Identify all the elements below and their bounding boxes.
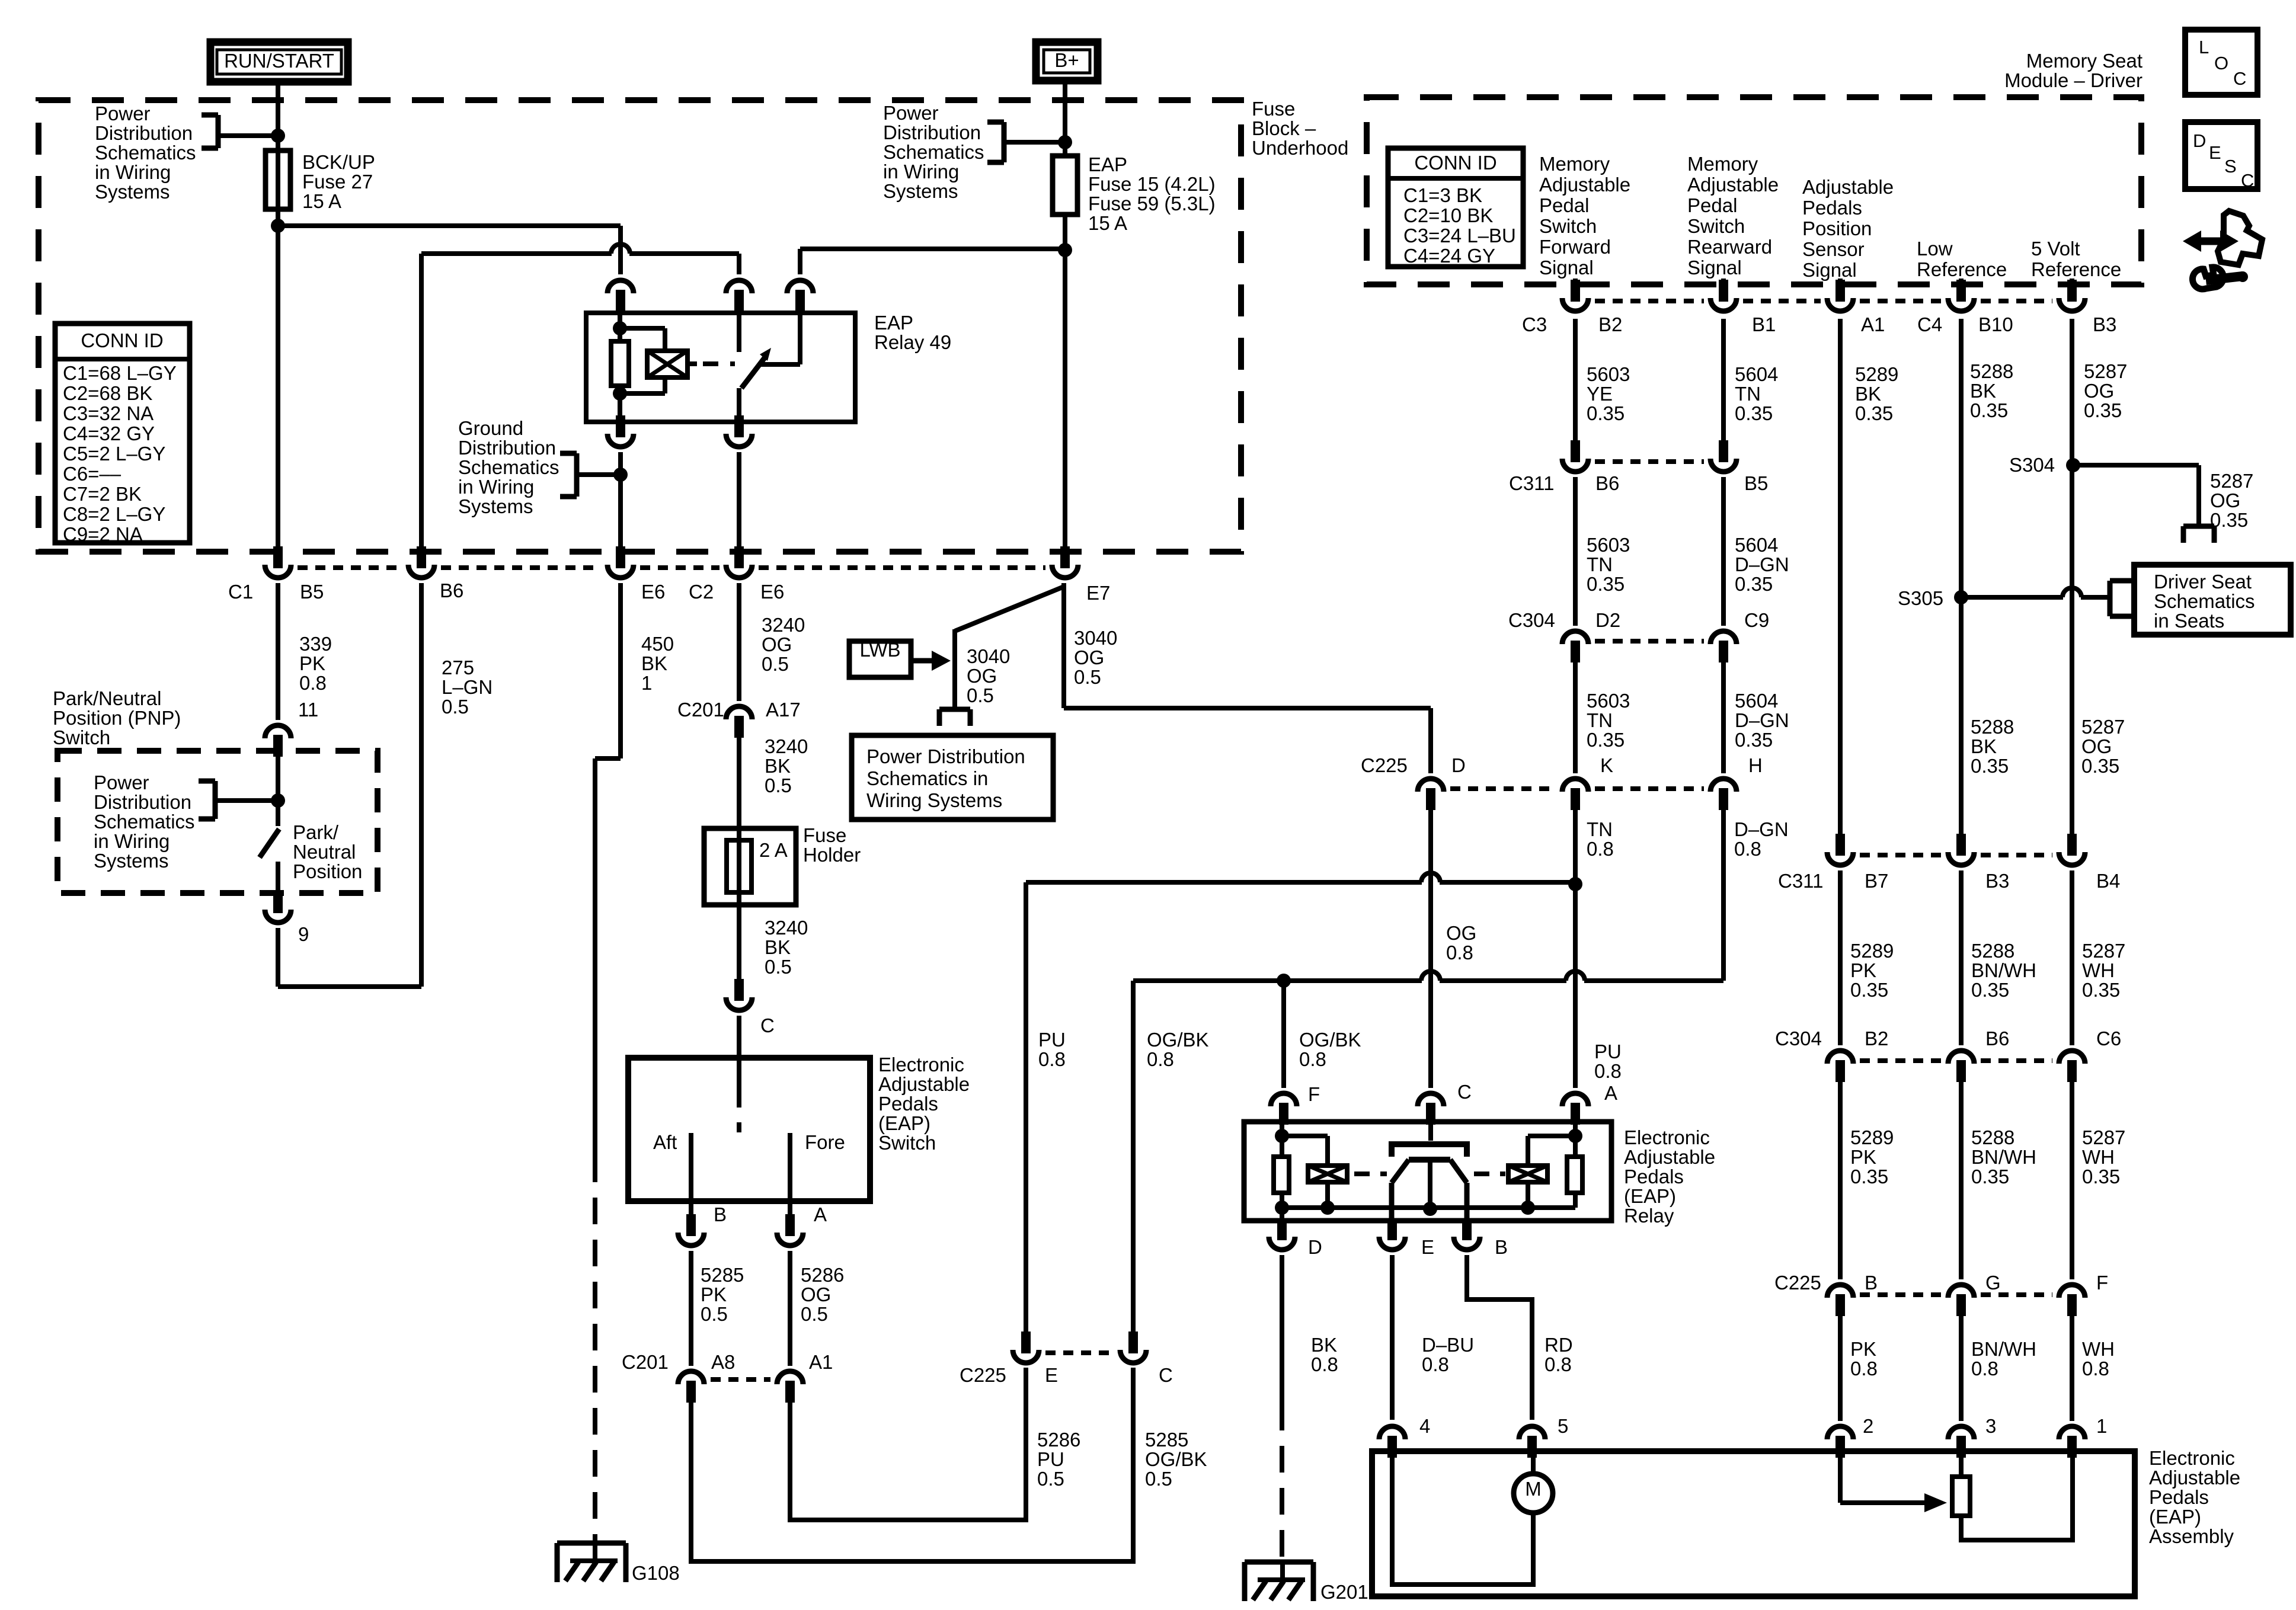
svg-text:Pedals: Pedals — [1802, 197, 1862, 219]
svg-text:0.8: 0.8 — [1147, 1048, 1174, 1070]
svg-text:5286: 5286 — [801, 1264, 844, 1286]
module pin B1 — [1719, 280, 1728, 302]
connector pin relay49 switch bottom — [734, 415, 744, 437]
svg-text:C4=24 GY: C4=24 GY — [1403, 245, 1495, 267]
box Driver Seat Schematics in Seats — [2134, 565, 2291, 635]
connector C225 pin K — [1562, 779, 1588, 792]
connector C225 pin C — [1128, 1331, 1138, 1353]
svg-text:Reference: Reference — [2031, 258, 2121, 280]
node splice S304 — [2066, 458, 2080, 472]
fuse 2A in holder — [737, 828, 741, 905]
wire 5287 WH C304 C6 to C225 F — [2070, 1082, 2074, 1279]
connector C1 pin B6 — [417, 546, 426, 568]
svg-text:0.5: 0.5 — [1074, 666, 1101, 688]
EAP assembly box Electronic Adjustable Pedals (EAP) Assembly — [1372, 1451, 2135, 1596]
svg-text:B7: B7 — [1865, 870, 1888, 892]
svg-text:5603: 5603 — [1587, 534, 1630, 556]
svg-text:C: C — [1159, 1364, 1173, 1386]
connector pin relay49 NO contact top — [787, 280, 813, 293]
svg-text:C6=––: C6=–– — [63, 463, 121, 485]
svg-text:Power: Power — [94, 772, 149, 793]
wire 275 L-GN up to B6 — [419, 583, 424, 987]
wire A1 to C225 E — [790, 1368, 1026, 1520]
svg-text:B6: B6 — [1985, 1028, 2009, 1049]
svg-text:0.8: 0.8 — [1544, 1353, 1572, 1375]
svg-text:YE: YE — [1587, 383, 1613, 405]
connector C201 pin A8 — [678, 1371, 704, 1384]
svg-text:D: D — [1308, 1236, 1322, 1258]
svg-text:PK: PK — [701, 1283, 727, 1305]
svg-text:C225: C225 — [1774, 1272, 1821, 1294]
fork to power distribution (3040 OG) — [939, 707, 970, 712]
connector pin A EAP relay — [1562, 1093, 1588, 1106]
svg-text:C7=2 BK: C7=2 BK — [63, 483, 142, 505]
wire EAP fuse to junction — [1063, 215, 1067, 250]
svg-text:C4=32 GY: C4=32 GY — [63, 422, 155, 444]
connector pin E7 — [1060, 546, 1070, 568]
svg-text:OG/BK: OG/BK — [1147, 1029, 1209, 1051]
svg-text:BN/WH: BN/WH — [1971, 959, 2036, 981]
svg-text:Fuse 27: Fuse 27 — [302, 171, 373, 193]
connector row C225 E C dashed line — [1045, 1350, 1114, 1355]
svg-text:B5: B5 — [300, 581, 324, 603]
connector pin A (EAP switch) — [785, 1214, 795, 1236]
connector pin C EAP relay — [1418, 1093, 1444, 1106]
svg-text:275: 275 — [442, 657, 474, 678]
wire relay49 coil bottom to E6 — [618, 452, 623, 549]
fuse holder box — [704, 828, 796, 905]
wire 5603 YE from module C3/B2 to C311 B6 — [1573, 279, 1578, 284]
svg-text:OG/BK: OG/BK — [1145, 1448, 1207, 1470]
svg-text:4: 4 — [1419, 1415, 1430, 1437]
svg-text:0.5: 0.5 — [765, 774, 792, 796]
module pin B3 — [2067, 280, 2077, 302]
svg-text:C201: C201 — [622, 1351, 669, 1373]
wire TN 0.8 from K to junction — [1573, 810, 1578, 884]
wire 450 BK from E6 — [618, 583, 623, 758]
connector row C304 left dashed line — [1595, 639, 1704, 644]
svg-text:in Seats: in Seats — [2154, 610, 2224, 632]
svg-text:15 A: 15 A — [1088, 212, 1127, 234]
svg-text:5289: 5289 — [1850, 1126, 1894, 1148]
svg-text:B6: B6 — [440, 580, 463, 601]
svg-text:D: D — [2193, 130, 2206, 151]
wire 5604 TN from module B1 to C311 B5 — [1721, 279, 1726, 284]
connector pin D EAP relay bottom — [1277, 1218, 1287, 1240]
svg-text:Assembly: Assembly — [2149, 1525, 2234, 1547]
svg-text:0.5: 0.5 — [701, 1303, 728, 1325]
svg-text:Adjustable: Adjustable — [878, 1073, 970, 1095]
wire 5289 PK C311 B7 to C304 B2 — [1838, 870, 1843, 1045]
svg-text:D–GN: D–GN — [1735, 553, 1789, 575]
svg-text:0.35: 0.35 — [2210, 509, 2248, 531]
wire 450 BK dashed to G108 — [593, 1156, 597, 1543]
wire 3040 OG from E7 down to OG 0.8 (C225 D) — [1061, 590, 1066, 708]
node junction below EAP fuse — [1058, 243, 1072, 257]
connector C225 pin E — [1021, 1331, 1031, 1353]
svg-text:S: S — [2224, 156, 2237, 177]
svg-text:C3=32 NA: C3=32 NA — [63, 402, 154, 424]
svg-text:C3=24 L–BU: C3=24 L–BU — [1403, 225, 1516, 247]
svg-text:Pedal: Pedal — [1539, 194, 1589, 216]
connector C225 pin F — [2059, 1285, 2085, 1298]
wire 3240 BK to fuse holder — [737, 738, 741, 828]
svg-text:Pedals: Pedals — [878, 1093, 938, 1115]
connector pin F EAP relay — [1271, 1093, 1297, 1106]
motor M1 circuit inside assembly — [1392, 1451, 1533, 1585]
svg-text:Power: Power — [95, 103, 151, 124]
svg-text:0.35: 0.35 — [1735, 573, 1773, 595]
svg-text:TN: TN — [1587, 709, 1613, 731]
connector C304 pin B6 — [1948, 1051, 1974, 1064]
node junction PNP feed — [271, 793, 285, 808]
svg-text:B10: B10 — [1978, 313, 2013, 335]
svg-text:BK: BK — [765, 936, 791, 958]
icon DESC box — [2185, 122, 2257, 189]
svg-text:Signal: Signal — [1687, 257, 1742, 279]
svg-text:C5=2 L–GY: C5=2 L–GY — [63, 443, 165, 465]
svg-text:15 A: 15 A — [302, 190, 341, 212]
svg-text:A: A — [814, 1204, 827, 1225]
wire 3240 BK below fuse holder — [737, 905, 741, 979]
connector C311 pin B3 — [1956, 834, 1966, 856]
svg-text:A: A — [1604, 1082, 1617, 1104]
svg-text:2: 2 — [1863, 1415, 1873, 1437]
svg-text:5288: 5288 — [1971, 716, 2014, 738]
wire 5285 PK to C201 A8 — [689, 1251, 693, 1366]
connector pin relay49 coil bottom — [616, 415, 625, 437]
connector C201 pin A1 — [777, 1371, 803, 1384]
svg-text:C: C — [760, 1014, 775, 1036]
svg-text:Low: Low — [1917, 238, 1953, 260]
svg-text:D: D — [1451, 754, 1466, 776]
relay K2 left resistor — [1280, 1122, 1284, 1157]
wire OG 0.8 from C225 D to EAP relay pin C — [1428, 810, 1433, 1088]
svg-text:Module – Driver: Module – Driver — [2004, 69, 2142, 91]
svg-text:Neutral: Neutral — [293, 841, 356, 863]
fuse EAP Fuse 15 (4.2L) / Fuse 59 (5.3L) 15 A — [1053, 156, 1077, 215]
svg-text:B2: B2 — [1598, 313, 1622, 335]
svg-text:3040: 3040 — [967, 645, 1010, 667]
svg-text:BCK/UP: BCK/UP — [302, 151, 375, 173]
svg-text:BK: BK — [641, 652, 667, 674]
svg-text:A17: A17 — [766, 699, 801, 721]
svg-text:1: 1 — [641, 672, 652, 694]
svg-text:2 A: 2 A — [759, 839, 788, 861]
wire 5603 TN to C304 D2 — [1573, 477, 1578, 626]
module pin A1 — [1835, 280, 1845, 302]
relay K2 right resistor — [1573, 1122, 1578, 1157]
svg-text:Position (PNP): Position (PNP) — [53, 707, 181, 729]
svg-text:0.35: 0.35 — [1855, 402, 1893, 424]
svg-text:Distribution: Distribution — [94, 791, 191, 813]
EAP switch common wire and gap — [737, 1058, 741, 1108]
svg-text:Distribution: Distribution — [95, 122, 193, 144]
svg-text:CONN ID: CONN ID — [1414, 152, 1496, 174]
connector C225 pin G — [1948, 1285, 1974, 1298]
svg-text:E: E — [2209, 142, 2221, 163]
EAP switch box — [628, 1058, 870, 1201]
svg-text:Switch: Switch — [1687, 215, 1745, 237]
svg-text:B4: B4 — [2096, 870, 2120, 892]
svg-text:B1: B1 — [1752, 313, 1776, 335]
wire RUN/START to fuse 27 — [276, 82, 280, 153]
svg-text:BK: BK — [1311, 1334, 1337, 1356]
svg-text:0.35: 0.35 — [1735, 402, 1773, 424]
relay K2 coil dashes right — [1474, 1172, 1505, 1176]
svg-text:Electronic: Electronic — [1624, 1126, 1710, 1148]
relay49 coil dashed actuator link — [687, 361, 697, 366]
connector C304 pin C6 — [2059, 1051, 2085, 1064]
svg-text:C1=3 BK: C1=3 BK — [1403, 184, 1482, 206]
module pin C3/B2 — [1571, 280, 1580, 302]
svg-text:(EAP): (EAP) — [2149, 1506, 2201, 1528]
svg-text:Position: Position — [1802, 217, 1872, 239]
svg-text:5287: 5287 — [2081, 716, 2125, 738]
svg-text:1: 1 — [2096, 1415, 2107, 1437]
icon adjust pedals (arrows and wrench) — [2199, 238, 2223, 245]
svg-text:B: B — [1865, 1272, 1878, 1294]
connector row C311 left dashed line — [1595, 459, 1704, 464]
svg-text:5603: 5603 — [1587, 690, 1630, 712]
svg-text:5285: 5285 — [1145, 1429, 1188, 1451]
svg-text:D2: D2 — [1595, 609, 1620, 631]
svg-text:Reference: Reference — [1917, 258, 2007, 280]
svg-text:0.5: 0.5 — [765, 956, 792, 978]
box Power Distribution Schematics in Wiring Systems — [852, 735, 1053, 820]
svg-text:OG: OG — [967, 665, 997, 687]
svg-text:0.5: 0.5 — [801, 1303, 828, 1325]
svg-text:Signal: Signal — [1802, 259, 1857, 281]
svg-text:5287: 5287 — [2082, 940, 2125, 962]
svg-text:C: C — [2233, 68, 2246, 89]
svg-text:0.35: 0.35 — [2082, 979, 2120, 1001]
svg-text:BN/WH: BN/WH — [1971, 1338, 2036, 1360]
module pin C4/B10 — [1956, 280, 1966, 302]
svg-text:3: 3 — [1985, 1415, 1996, 1437]
node junction at fuse 27 top — [271, 129, 285, 143]
svg-text:OG: OG — [2081, 735, 2112, 757]
wire junction down to connector E7 — [1063, 250, 1067, 549]
svg-text:C304: C304 — [1775, 1028, 1822, 1049]
connector C311 pin B7 — [1835, 834, 1845, 856]
node junction below fuse 27 — [271, 219, 285, 233]
wire pin 5 to motor — [1531, 1451, 1536, 1474]
svg-text:Adjustable: Adjustable — [1539, 174, 1630, 196]
svg-text:TN: TN — [1735, 383, 1761, 405]
svg-text:PU: PU — [1594, 1041, 1622, 1062]
svg-text:B: B — [1495, 1236, 1508, 1258]
svg-text:G108: G108 — [632, 1562, 680, 1584]
svg-text:E6: E6 — [641, 581, 665, 603]
svg-text:C9=2 NA: C9=2 NA — [63, 523, 143, 545]
svg-text:Systems: Systems — [95, 181, 170, 203]
svg-text:Memory Seat: Memory Seat — [2026, 50, 2142, 72]
svg-text:LWB: LWB — [859, 639, 900, 661]
svg-text:9: 9 — [298, 923, 309, 945]
svg-text:Holder: Holder — [803, 844, 861, 866]
svg-text:WH: WH — [2082, 1338, 2115, 1360]
wire WH 0.8 C225 F to pin 1 — [2070, 1316, 2074, 1421]
connector C304 pin D2 — [1562, 631, 1588, 644]
svg-text:C1: C1 — [228, 581, 253, 603]
svg-text:Underhood: Underhood — [1252, 137, 1348, 159]
svg-text:E: E — [1421, 1236, 1434, 1258]
wire BK dashed to G201 — [1280, 1404, 1284, 1562]
svg-text:Systems: Systems — [458, 495, 533, 517]
svg-text:5287: 5287 — [2210, 470, 2253, 492]
svg-text:C4: C4 — [1917, 313, 1942, 335]
svg-text:O: O — [2214, 53, 2228, 73]
wire 5287 WH C311 B4 to C304 C6 — [2070, 870, 2074, 1045]
svg-text:D–GN: D–GN — [1735, 709, 1789, 731]
svg-text:OG: OG — [762, 633, 792, 655]
wire fuse 27 to junction — [276, 207, 280, 226]
LWB tag box — [849, 641, 911, 677]
svg-text:C2: C2 — [689, 581, 714, 603]
wire PU 0.8 junction down to EAP relay pin A — [1573, 884, 1578, 1088]
wire 5603 TN to C225 K — [1573, 662, 1578, 773]
svg-text:0.8: 0.8 — [1446, 942, 1473, 964]
wire 339 PK to PNP switch — [276, 583, 280, 720]
svg-text:K: K — [1600, 754, 1613, 776]
svg-text:Switch: Switch — [53, 726, 110, 748]
svg-text:Distribution: Distribution — [458, 437, 556, 459]
svg-text:(EAP): (EAP) — [1624, 1185, 1676, 1207]
wire 5289 PK C304 B2 to C225 B — [1838, 1082, 1843, 1279]
svg-text:in Wiring: in Wiring — [883, 161, 959, 183]
svg-text:3040: 3040 — [1074, 627, 1117, 649]
svg-text:OG: OG — [2210, 489, 2240, 511]
fuse block underhood dashed box — [39, 100, 1241, 552]
svg-text:PK: PK — [1850, 1146, 1876, 1168]
svg-text:OG: OG — [2084, 380, 2114, 402]
wire B+ to EAP fuse — [1063, 78, 1067, 158]
svg-text:Park/Neutral: Park/Neutral — [53, 687, 161, 709]
svg-text:0.5: 0.5 — [1037, 1468, 1064, 1490]
svg-text:in Wiring: in Wiring — [458, 476, 534, 498]
power feed box RUN/START — [210, 42, 348, 82]
svg-text:C311: C311 — [1778, 870, 1823, 892]
svg-text:Systems: Systems — [883, 180, 958, 202]
svg-text:PU: PU — [1037, 1448, 1064, 1470]
svg-text:B2: B2 — [1865, 1028, 1888, 1049]
wire 5604 D-GN to C225 H — [1721, 662, 1726, 773]
svg-text:3240: 3240 — [762, 614, 805, 636]
wire 5287 OG S304 down to C311 B4 — [2070, 465, 2074, 834]
svg-text:RD: RD — [1544, 1334, 1573, 1356]
ground G108 — [557, 1541, 626, 1546]
svg-text:Driver Seat: Driver Seat — [2154, 571, 2252, 593]
wire 5287 OG module B3 to S304 — [2070, 279, 2074, 284]
svg-text:Block –: Block – — [1252, 117, 1316, 139]
svg-text:L: L — [2199, 37, 2209, 57]
svg-text:PK: PK — [1850, 1338, 1876, 1360]
svg-text:Rearward: Rearward — [1687, 236, 1772, 258]
svg-text:in Wiring: in Wiring — [95, 161, 171, 183]
svg-text:0.8: 0.8 — [1850, 1358, 1878, 1379]
connector pin relay49 switch common top — [726, 280, 752, 293]
connector row C311 right dashed line — [1860, 853, 1942, 857]
connector row C225 right dashed line — [1860, 1292, 1942, 1297]
svg-text:Distribution: Distribution — [883, 121, 981, 143]
connector row C225 dashed line (D K H) — [1450, 786, 1556, 791]
svg-text:0.8: 0.8 — [1422, 1353, 1449, 1375]
svg-text:A1: A1 — [1861, 313, 1885, 335]
wire pin 9 to L-GN wire — [276, 928, 280, 987]
connector pin C (EAP switch) — [734, 979, 744, 1001]
svg-text:Schematics in: Schematics in — [866, 767, 988, 789]
svg-text:Park/: Park/ — [293, 821, 339, 843]
svg-text:BK: BK — [1855, 383, 1881, 405]
wire junction down to connector B5 — [276, 226, 280, 549]
svg-text:Aft: Aft — [653, 1131, 677, 1153]
svg-text:Adjustable: Adjustable — [1687, 174, 1779, 196]
svg-text:3240: 3240 — [765, 917, 808, 939]
relay K2 box Electronic Adjustable Pedals (EAP) Relay — [1244, 1122, 1611, 1221]
svg-text:L–GN: L–GN — [442, 676, 493, 698]
connector C2 pin E6 — [734, 546, 744, 568]
svg-text:Memory: Memory — [1539, 153, 1610, 175]
connector C304 pin C9 — [1710, 631, 1737, 644]
position sensor wiring inside assembly — [1838, 1451, 1843, 1503]
svg-text:(EAP): (EAP) — [878, 1112, 930, 1134]
svg-text:0.8: 0.8 — [1587, 838, 1614, 860]
icon LOC box — [2185, 30, 2257, 95]
svg-text:0.8: 0.8 — [2082, 1358, 2109, 1379]
svg-text:0.35: 0.35 — [1970, 399, 2008, 421]
svg-text:C8=2 L–GY: C8=2 L–GY — [63, 503, 165, 525]
svg-text:WH: WH — [2082, 1146, 2115, 1168]
svg-text:E: E — [1045, 1364, 1058, 1386]
svg-text:0.8: 0.8 — [1971, 1358, 1998, 1379]
svg-text:C201: C201 — [677, 699, 724, 721]
svg-text:OG: OG — [1446, 922, 1476, 944]
relay49 NO contact wire — [760, 362, 800, 367]
svg-text:OG: OG — [1074, 646, 1104, 668]
svg-text:Pedals: Pedals — [1624, 1166, 1684, 1188]
svg-text:5: 5 — [1558, 1415, 1568, 1437]
svg-text:G: G — [1985, 1272, 2001, 1294]
relay K2 center contact assembly — [1428, 1122, 1433, 1141]
connector C201 pin A17 — [726, 706, 752, 719]
svg-text:0.8: 0.8 — [1311, 1353, 1338, 1375]
node junction OG/BK splice — [1277, 974, 1291, 988]
svg-text:0.5: 0.5 — [762, 653, 789, 675]
svg-text:C304: C304 — [1508, 609, 1555, 631]
svg-text:EAP: EAP — [1088, 153, 1127, 175]
svg-text:Ground: Ground — [458, 417, 523, 439]
svg-text:BN/WH: BN/WH — [1971, 1146, 2036, 1168]
svg-text:C: C — [1457, 1081, 1472, 1103]
svg-text:BK: BK — [1970, 380, 1996, 402]
wire D-GN 0.8 from H to OG/BK splice — [1721, 810, 1726, 981]
svg-text:Schematics: Schematics — [95, 142, 196, 164]
svg-text:D–BU: D–BU — [1422, 1334, 1474, 1356]
node junction at EAP fuse top — [1058, 135, 1072, 149]
wire 5288 BK module C4/B10 to S305 — [1959, 279, 1964, 284]
wire 5289 BK module A1 to C311 B7 — [1838, 279, 1843, 284]
wire 3240 OG to C201 — [737, 583, 741, 701]
svg-text:5604: 5604 — [1735, 363, 1778, 385]
wire 5288 BN/WH C304 B6 to C225 G — [1959, 1082, 1964, 1279]
svg-text:BK: BK — [1971, 735, 1997, 757]
relay K2 internal bus — [1282, 1205, 1575, 1210]
table CONN ID fuse block — [55, 324, 190, 543]
svg-text:Memory: Memory — [1687, 153, 1758, 175]
svg-text:M: M — [1525, 1478, 1542, 1500]
svg-text:Schematics: Schematics — [458, 456, 559, 478]
